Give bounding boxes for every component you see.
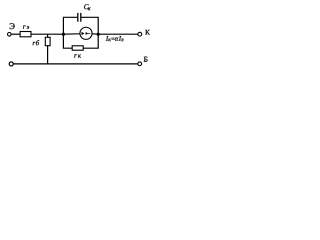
wire rб to base rail	[47, 46, 49, 64]
capacitor Cк right plate	[80, 13, 82, 22]
terminal bottom-left	[9, 62, 13, 66]
wire capacitor to right corner	[81, 17, 98, 34]
label Cк	[84, 4, 91, 10]
label К	[145, 30, 149, 35]
resistor rб	[45, 37, 50, 45]
resistor rб stub	[47, 34, 49, 37]
wire rэ to node B'	[31, 33, 64, 35]
junction node right	[97, 33, 100, 36]
wire node to current source	[63, 33, 80, 35]
terminal Б (base)	[138, 62, 142, 66]
wire from Э to rэ	[11, 33, 20, 35]
terminal К (collector)	[138, 32, 142, 36]
label rэ	[23, 25, 29, 28]
label Б	[144, 57, 148, 62]
resistor rэ	[20, 32, 31, 37]
resistor rк	[72, 46, 83, 50]
base rail wire	[13, 63, 137, 65]
current source arrows	[82, 32, 91, 35]
label Iк=αIэ	[106, 36, 124, 41]
wire bottom branch to rк	[63, 34, 72, 48]
label rб	[33, 40, 40, 45]
terminal Э (emitter)	[8, 33, 12, 37]
capacitor Cк left plate	[77, 13, 79, 22]
label rк	[74, 54, 81, 57]
label Э	[10, 23, 15, 29]
current source circle	[80, 27, 92, 39]
junction node left	[62, 33, 65, 36]
wire right node to terminal К	[98, 33, 138, 35]
wire current source to right node	[92, 33, 98, 35]
wire rк to right node	[83, 34, 98, 48]
wire left branch up to capacitor	[63, 17, 77, 34]
